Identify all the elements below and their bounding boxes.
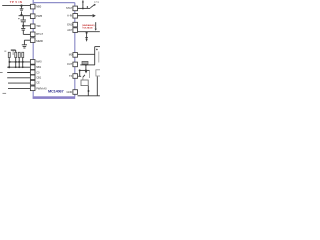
svg-text:A-IN: A-IN [67,14,72,18]
svg-text:AD7: AD7 [67,28,73,32]
svg-text:CE: CE [36,81,40,85]
svg-text:MC14067: MC14067 [48,88,64,93]
svg-text:TX: TX [69,74,73,78]
svg-text:M0: M0 [69,53,73,57]
svg-text:GND: GND [67,90,73,94]
svg-text:CB1: CB1 [36,75,42,79]
svg-text:BTGT: BTGT [36,32,43,36]
svg-text:MA0: MA0 [36,60,42,64]
svg-text:EN0: EN0 [67,22,73,26]
svg-text:470k: 470k [94,2,100,4]
svg-text:PWB: PWB [36,14,42,18]
svg-text:T0F: T0F [36,24,41,28]
svg-text:OUT: OUT [67,62,73,66]
svg-text:ME80: ME80 [36,39,43,43]
svg-text:C0: C0 [36,70,40,74]
svg-text:NB0: NB0 [36,4,42,8]
svg-text:NB1: NB1 [36,65,42,69]
svg-text:VOLTAGE: VOLTAGE [82,26,93,29]
svg-text:STA7: STA7 [66,6,73,10]
svg-text:TP 5 IN: TP 5 IN [10,0,23,4]
svg-text:PWM-A0: PWM-A0 [36,86,47,90]
